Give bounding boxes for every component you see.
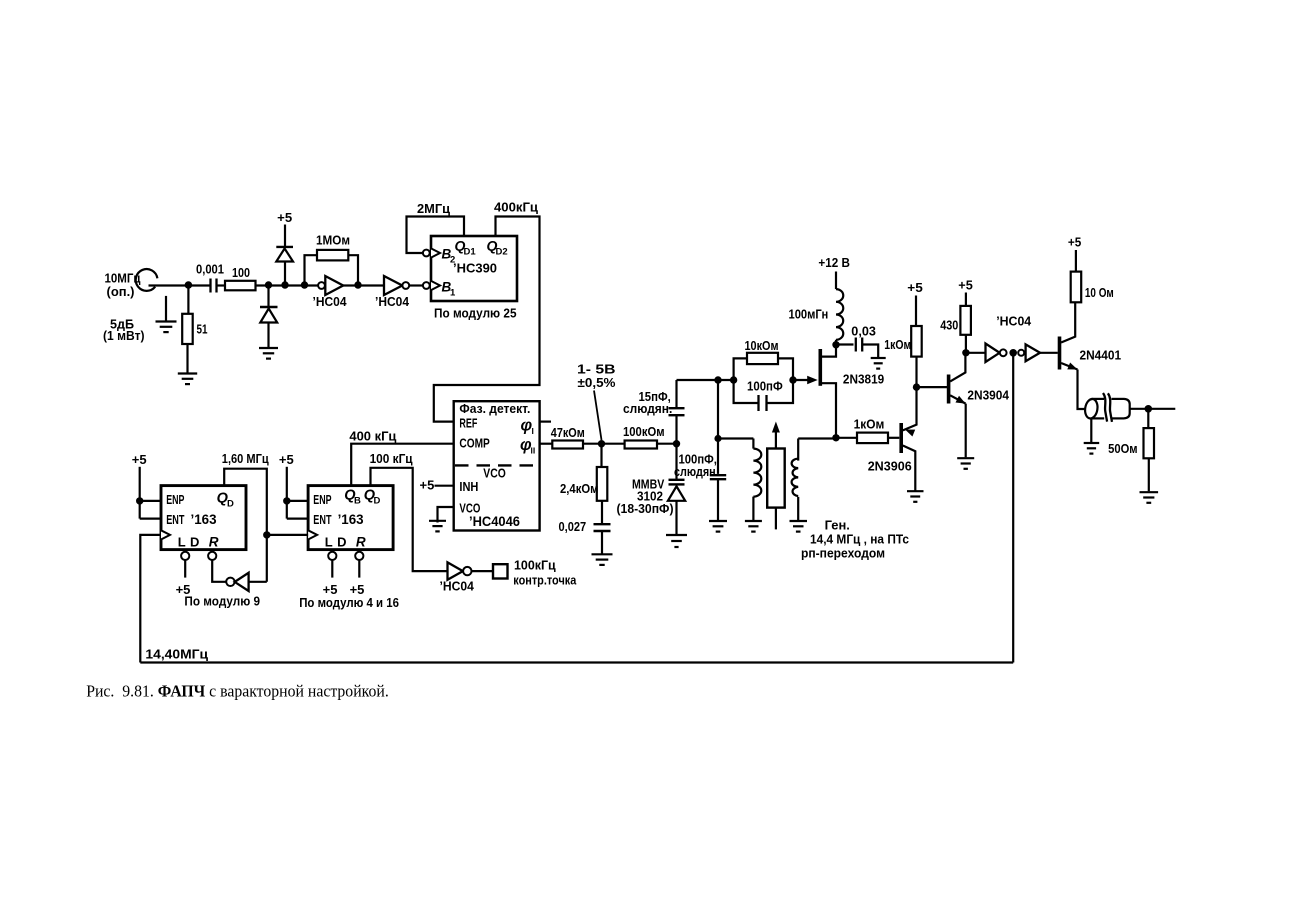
svg-text:+5: +5 <box>420 478 435 493</box>
svg-text:430: 430 <box>940 317 958 332</box>
svg-text:400 кГц: 400 кГц <box>349 429 396 444</box>
svg-text:B: B <box>354 495 361 506</box>
svg-text:100пФ: 100пФ <box>747 379 783 394</box>
svg-text:2N3906: 2N3906 <box>868 459 912 474</box>
svg-text:ENT: ENT <box>313 513 331 527</box>
svg-text:’HC04: ’HC04 <box>313 294 348 309</box>
svg-text:+5: +5 <box>279 452 294 467</box>
svg-text:D: D <box>190 534 199 549</box>
svg-text:VCO: VCO <box>483 467 506 481</box>
svg-text:D: D <box>374 495 381 506</box>
svg-text:COMP: COMP <box>459 437 489 451</box>
svg-text:100: 100 <box>232 265 250 280</box>
svg-text:100кОм: 100кОм <box>623 424 665 439</box>
svg-text:ENT: ENT <box>166 513 184 527</box>
svg-text:слюдян.: слюдян. <box>674 464 719 479</box>
svg-text:D2: D2 <box>496 247 508 258</box>
svg-text:0,027: 0,027 <box>559 519 587 534</box>
svg-text:По модулю 9: По модулю 9 <box>184 594 260 609</box>
svg-text:’163: ’163 <box>191 512 217 527</box>
svg-text:+5: +5 <box>277 210 292 225</box>
svg-text:2N3819: 2N3819 <box>843 372 884 387</box>
svg-text:контр.точка: контр.точка <box>513 572 577 587</box>
svg-text:D1: D1 <box>464 247 477 258</box>
svg-text:I: I <box>532 426 534 436</box>
svg-text:+5: +5 <box>132 452 147 467</box>
svg-text:INH: INH <box>459 480 478 494</box>
svg-text:14,4 МГц , на ПТс: 14,4 МГц , на ПТс <box>810 532 909 547</box>
svg-text:10кОм: 10кОм <box>745 338 779 353</box>
svg-text:Ген.: Ген. <box>825 518 850 533</box>
svg-text:R: R <box>356 534 366 549</box>
svg-text:1МОм: 1МОм <box>316 233 350 248</box>
svg-text:+12 В: +12 В <box>818 255 850 270</box>
svg-text:рп-переходом: рп-переходом <box>801 546 885 561</box>
svg-text:D: D <box>227 499 234 510</box>
svg-text:1: 1 <box>450 288 456 299</box>
svg-text:400кГц: 400кГц <box>494 200 538 215</box>
svg-text:’HC390: ’HC390 <box>453 261 497 276</box>
svg-text:По модулю 4 и 16: По модулю 4 и 16 <box>299 595 399 610</box>
svg-text:51: 51 <box>197 322 208 337</box>
svg-text:0,03: 0,03 <box>851 324 876 339</box>
svg-text:L: L <box>178 534 186 549</box>
svg-text:’HC4046: ’HC4046 <box>469 514 520 529</box>
svg-text:II: II <box>531 446 536 456</box>
svg-text:2N4401: 2N4401 <box>1080 348 1122 363</box>
svg-text:2,4кОм: 2,4кОм <box>560 481 599 496</box>
svg-text:+5: +5 <box>907 280 923 295</box>
svg-text:ENP: ENP <box>166 493 184 507</box>
svg-text:+5: +5 <box>958 277 973 292</box>
svg-text:10 Ом: 10 Ом <box>1085 285 1114 300</box>
svg-text:47кОм: 47кОм <box>551 425 585 440</box>
svg-text:’HC04: ’HC04 <box>996 314 1032 329</box>
svg-text:100мГн: 100мГн <box>789 307 829 322</box>
svg-text:По модулю 25: По модулю 25 <box>434 306 517 321</box>
svg-text:L: L <box>325 534 333 549</box>
svg-text:’163: ’163 <box>338 512 364 527</box>
svg-text:Рис. 9.81. ФАПЧ с варакторной: Рис. 9.81. ФАПЧ с варакторной настройкой… <box>86 682 389 701</box>
svg-text:Фаз. детект.: Фаз. детект. <box>459 401 530 416</box>
svg-text:+5: +5 <box>1068 234 1081 249</box>
svg-text:1,60 МГц: 1,60 МГц <box>222 451 269 466</box>
svg-text:’HC04: ’HC04 <box>440 579 475 594</box>
svg-text:1кОм: 1кОм <box>854 417 885 432</box>
svg-text:1кОм: 1кОм <box>884 337 911 352</box>
svg-text:±0,5%: ±0,5% <box>578 375 616 390</box>
svg-text:(1 мВт): (1 мВт) <box>103 328 145 343</box>
svg-text:(18-30пФ): (18-30пФ) <box>617 501 674 516</box>
svg-text:14,40МГц: 14,40МГц <box>145 647 208 662</box>
svg-text:100кГц: 100кГц <box>514 557 556 572</box>
svg-text:R: R <box>209 534 219 549</box>
svg-text:D: D <box>337 534 346 549</box>
svg-text:2N3904: 2N3904 <box>967 388 1009 403</box>
svg-text:’HC04: ’HC04 <box>375 294 410 309</box>
svg-text:REF: REF <box>459 417 477 431</box>
svg-text:слюдян.: слюдян. <box>623 401 672 416</box>
svg-text:ENP: ENP <box>313 493 331 507</box>
svg-text:0,001: 0,001 <box>196 262 224 277</box>
svg-text:2МГц: 2МГц <box>417 201 450 216</box>
svg-text:50Ом: 50Ом <box>1108 441 1138 456</box>
svg-text:(оп.): (оп.) <box>107 284 135 299</box>
svg-text:100 кГц: 100 кГц <box>370 451 413 466</box>
